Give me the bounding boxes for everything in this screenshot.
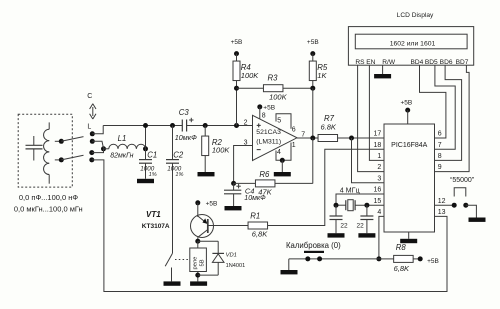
svg-text:BD4: BD4 bbox=[410, 59, 423, 66]
svg-text:1: 1 bbox=[377, 153, 381, 160]
svg-text:6,8K: 6,8K bbox=[394, 264, 410, 273]
svg-text:RS: RS bbox=[355, 59, 365, 66]
svg-text:9: 9 bbox=[438, 164, 442, 171]
svg-text:L1: L1 bbox=[118, 134, 127, 143]
svg-text:BD6: BD6 bbox=[440, 59, 453, 66]
svg-text:+5B: +5B bbox=[206, 201, 218, 208]
svg-text:(LM311): (LM311) bbox=[256, 139, 281, 146]
svg-text:82мкГн: 82мкГн bbox=[110, 153, 133, 160]
svg-text:13: 13 bbox=[438, 209, 446, 216]
svg-text:R6: R6 bbox=[259, 170, 270, 179]
svg-text:реле: реле bbox=[193, 257, 199, 270]
svg-text:VD1: VD1 bbox=[226, 252, 237, 258]
svg-text:EN: EN bbox=[366, 59, 375, 66]
svg-text:1%: 1% bbox=[149, 172, 157, 178]
svg-text:6,8K: 6,8K bbox=[252, 230, 268, 239]
svg-text:15: 15 bbox=[374, 198, 382, 205]
svg-text:Калибровка (0): Калибровка (0) bbox=[286, 241, 341, 250]
svg-text:1K: 1K bbox=[317, 71, 327, 80]
svg-text:7: 7 bbox=[438, 142, 442, 149]
svg-text:4: 4 bbox=[377, 209, 381, 216]
svg-text:KT3107A: KT3107A bbox=[142, 223, 170, 230]
svg-text:4: 4 bbox=[277, 149, 281, 156]
svg-text:22: 22 bbox=[340, 223, 348, 230]
svg-text:2: 2 bbox=[377, 164, 381, 171]
svg-text:6.8K: 6.8K bbox=[321, 122, 337, 131]
svg-text:521CA3: 521CA3 bbox=[256, 129, 281, 136]
svg-text:C2: C2 bbox=[173, 151, 184, 160]
svg-text:18: 18 bbox=[374, 142, 382, 149]
svg-text:1N4001: 1N4001 bbox=[226, 263, 246, 269]
svg-text:17: 17 bbox=[374, 131, 382, 138]
svg-text:R3: R3 bbox=[268, 73, 279, 82]
svg-text:BD5: BD5 bbox=[425, 59, 438, 66]
svg-text:+5B: +5B bbox=[401, 99, 413, 106]
svg-text:100K: 100K bbox=[212, 145, 231, 154]
svg-text:R/W: R/W bbox=[382, 59, 396, 66]
svg-text:8: 8 bbox=[262, 112, 266, 119]
svg-text:R8: R8 bbox=[396, 243, 407, 252]
svg-text:6: 6 bbox=[438, 131, 442, 138]
svg-text:1%: 1% bbox=[175, 172, 183, 178]
svg-text:16: 16 bbox=[374, 187, 382, 194]
svg-text:8: 8 bbox=[438, 153, 442, 160]
svg-text:10мкФ: 10мкФ bbox=[244, 195, 266, 202]
svg-text:4 МГц: 4 МГц bbox=[340, 186, 360, 195]
svg-text:100K: 100K bbox=[241, 71, 260, 80]
svg-text:1602 или 1601: 1602 или 1601 bbox=[390, 41, 436, 48]
svg-text:5: 5 bbox=[277, 118, 281, 125]
svg-text:3: 3 bbox=[244, 139, 248, 146]
svg-text:1: 1 bbox=[292, 142, 296, 149]
svg-text:+5B: +5B bbox=[307, 39, 319, 46]
svg-text:+5B: +5B bbox=[427, 258, 439, 265]
svg-text:3: 3 bbox=[377, 175, 381, 182]
svg-text:PIC16F84A: PIC16F84A bbox=[391, 142, 428, 149]
svg-text:2: 2 bbox=[244, 119, 248, 126]
svg-text:5В: 5В bbox=[200, 259, 206, 266]
svg-text:10мкФ: 10мкФ bbox=[175, 133, 197, 142]
svg-text:+5B: +5B bbox=[231, 39, 243, 46]
svg-text:+5B: +5B bbox=[263, 105, 275, 112]
svg-text:R1: R1 bbox=[250, 212, 260, 221]
svg-text:C: C bbox=[87, 93, 92, 100]
svg-text:12: 12 bbox=[438, 198, 446, 205]
svg-text:BD7: BD7 bbox=[456, 59, 469, 66]
svg-text:22: 22 bbox=[357, 223, 365, 230]
svg-text:100K: 100K bbox=[269, 92, 288, 101]
svg-text:L: L bbox=[87, 124, 91, 131]
svg-text:0,0 мкГн...100,0 мГн: 0,0 мкГн...100,0 мГн bbox=[14, 205, 83, 214]
svg-text:6: 6 bbox=[292, 126, 296, 133]
svg-text:“55000”: “55000” bbox=[450, 177, 475, 184]
svg-text:LCD Display: LCD Display bbox=[397, 12, 434, 19]
svg-text:C1: C1 bbox=[147, 151, 157, 160]
svg-text:C3: C3 bbox=[179, 108, 190, 117]
svg-text:VT1: VT1 bbox=[146, 210, 161, 219]
svg-text:0,0 пФ...100,0 нФ: 0,0 пФ...100,0 нФ bbox=[19, 193, 79, 202]
svg-text:7: 7 bbox=[301, 132, 305, 139]
